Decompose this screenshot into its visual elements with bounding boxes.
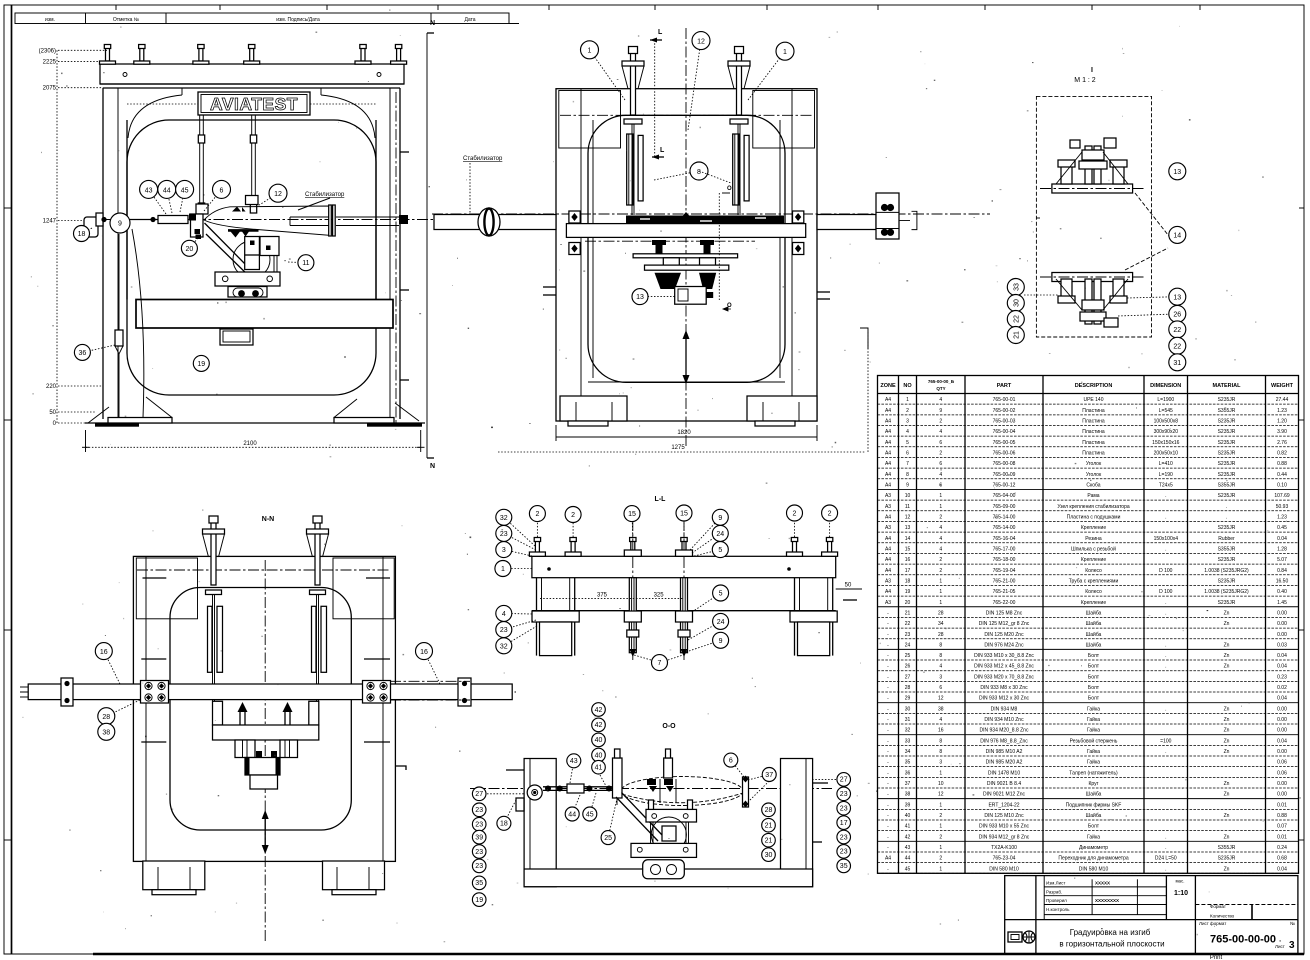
svg-text:31: 31 <box>1173 360 1181 367</box>
svg-text:DIN 580 M10: DIN 580 M10 <box>989 866 1019 872</box>
svg-text:Zn: Zn <box>1224 706 1230 712</box>
svg-text:0.04: 0.04 <box>1277 696 1287 702</box>
svg-text:35: 35 <box>475 880 483 887</box>
svg-text:1: 1 <box>501 566 505 573</box>
svg-text:50: 50 <box>845 583 852 589</box>
right column block <box>781 759 813 887</box>
svg-text:765-00-00_Б: 765-00-00_Б <box>928 379 955 384</box>
svg-text:23: 23 <box>475 807 483 814</box>
svg-text:S355JR: S355JR <box>1218 546 1236 552</box>
svg-text:6: 6 <box>939 461 942 467</box>
svg-text:Скоба: Скоба <box>1086 482 1100 488</box>
turnbuckle <box>130 219 197 221</box>
svg-text:DIN 934 M12_gr 8 Znc: DIN 934 M12_gr 8 Znc <box>979 834 1030 840</box>
svg-text:№: № <box>1290 921 1295 926</box>
svg-text:2: 2 <box>939 568 942 574</box>
svg-text:2225: 2225 <box>43 59 57 65</box>
upper clamp assembly <box>1052 184 1133 193</box>
svg-text:Zn: Zn <box>1224 866 1230 872</box>
svg-text:Колесо: Колесо <box>1085 589 1102 595</box>
top bolts <box>535 541 539 553</box>
svg-text:19: 19 <box>197 361 205 368</box>
svg-text:15: 15 <box>680 511 688 518</box>
svg-text:0.84: 0.84 <box>1277 568 1287 574</box>
svg-text:5: 5 <box>718 547 722 554</box>
svg-text:A3: A3 <box>885 525 891 531</box>
svg-text:43: 43 <box>145 187 153 194</box>
svg-text:1: 1 <box>939 845 942 851</box>
svg-text:A4: A4 <box>885 557 891 563</box>
svg-text:Дата: Дата <box>464 17 475 23</box>
svg-text:30: 30 <box>765 852 773 859</box>
svg-text:19: 19 <box>475 897 483 904</box>
svg-text:45: 45 <box>905 866 911 872</box>
svg-text:8: 8 <box>939 653 942 659</box>
svg-text:765-21-05: 765-21-05 <box>993 589 1016 595</box>
svg-text:DIN 985 M10 A2: DIN 985 M10 A2 <box>986 749 1023 755</box>
svg-text:18: 18 <box>500 821 508 828</box>
svg-text:Пластина: Пластина <box>1082 440 1105 446</box>
svg-text:1: 1 <box>939 589 942 595</box>
svg-text:1275: 1275 <box>671 445 685 451</box>
svg-text:Шайба: Шайба <box>1086 609 1102 616</box>
svg-text:8: 8 <box>939 642 942 648</box>
svg-text:S235JR: S235JR <box>1218 856 1236 862</box>
svg-text:2075: 2075 <box>43 86 57 92</box>
svg-text:Гайка: Гайка <box>1087 748 1100 755</box>
svg-text:Узел крепления стабилизатора: Узел крепления стабилизатора <box>1057 504 1129 510</box>
svg-text:DIN 125 M12_gr 8 Znc: DIN 125 M12_gr 8 Znc <box>979 621 1030 627</box>
svg-text:Болт: Болт <box>1088 674 1100 680</box>
svg-text:18: 18 <box>78 231 86 238</box>
svg-text:Гайка: Гайка <box>1087 727 1100 734</box>
svg-text:765-21-00: 765-21-00 <box>993 578 1016 584</box>
svg-text:42: 42 <box>905 834 911 840</box>
svg-text:.: . <box>1165 664 1166 670</box>
svg-text:23: 23 <box>500 627 508 634</box>
svg-text:0.00: 0.00 <box>1277 706 1287 712</box>
svg-text:Резьбовой стержень: Резьбовой стержень <box>1070 737 1118 744</box>
svg-text:25: 25 <box>905 653 911 659</box>
svg-text:S235JR: S235JR <box>1218 440 1236 446</box>
svg-text:.: . <box>1226 504 1227 510</box>
svg-text:N: N <box>430 463 435 470</box>
svg-text:765-00-12: 765-00-12 <box>993 482 1016 488</box>
svg-text:0.40: 0.40 <box>1277 589 1287 595</box>
main beam <box>532 556 836 577</box>
svg-text:23: 23 <box>475 822 483 829</box>
svg-text:Zn: Zn <box>1224 738 1230 744</box>
svg-text:I: I <box>1091 67 1093 74</box>
svg-text:20: 20 <box>186 246 194 253</box>
svg-text:A4: A4 <box>885 589 891 595</box>
svg-text:34: 34 <box>905 749 911 755</box>
svg-text:A4: A4 <box>885 461 891 467</box>
svg-text:0.06: 0.06 <box>1277 770 1287 776</box>
svg-text:26: 26 <box>905 664 911 670</box>
svg-text:765-00-08: 765-00-08 <box>993 461 1016 467</box>
svg-text:1: 1 <box>939 770 942 776</box>
svg-text:Пластина с подушками: Пластина с подушками <box>1067 514 1121 520</box>
svg-text:34: 34 <box>938 621 944 627</box>
svg-text:Гайка: Гайка <box>1087 705 1100 712</box>
stabilizer airfoil <box>204 206 330 235</box>
svg-text:DIN 933 M20 x 70_8.8 Znc: DIN 933 M20 x 70_8.8 Znc <box>974 674 1034 680</box>
svg-text:0.01: 0.01 <box>1277 802 1287 808</box>
svg-text:765-09-00: 765-09-00 <box>993 504 1016 510</box>
svg-text:4: 4 <box>939 536 942 542</box>
svg-text:150x100x4: 150x100x4 <box>1154 536 1179 542</box>
svg-text:765-19-04: 765-19-04 <box>993 568 1016 574</box>
svg-text:Шайба: Шайба <box>1086 812 1102 819</box>
svg-text:S235JR: S235JR <box>1218 525 1236 531</box>
screw rods <box>631 53 636 115</box>
svg-text:33: 33 <box>1014 283 1021 291</box>
svg-text:L-L: L-L <box>655 496 667 503</box>
svg-text:39: 39 <box>905 802 911 808</box>
svg-text:1: 1 <box>939 866 942 872</box>
svg-text:.: . <box>1165 845 1166 851</box>
svg-text:7: 7 <box>906 461 909 467</box>
svg-text:30: 30 <box>905 706 911 712</box>
svg-text:Болт: Болт <box>1088 696 1100 702</box>
svg-text:0.00: 0.00 <box>1277 781 1287 787</box>
svg-text:PART: PART <box>997 383 1012 389</box>
svg-text:2: 2 <box>793 511 797 518</box>
svg-text:DIN 9021 B 8.4: DIN 9021 B 8.4 <box>987 781 1021 787</box>
svg-text:Zn: Zn <box>1224 781 1230 787</box>
svg-text:43: 43 <box>905 845 911 851</box>
svg-text:Разраб.: Разраб. <box>1046 890 1062 895</box>
view: front elevation of test frame <box>39 20 435 470</box>
svg-text:28: 28 <box>905 685 911 691</box>
svg-text:A4: A4 <box>885 397 891 403</box>
svg-text:24: 24 <box>717 619 725 626</box>
svg-text:DIN 933 M10 x 30_8.8 Znc: DIN 933 M10 x 30_8.8 Znc <box>974 653 1034 659</box>
svg-text:DIN 934 M20_8.8 Znc: DIN 934 M20_8.8 Znc <box>980 728 1029 734</box>
svg-text:3.90: 3.90 <box>1277 429 1287 435</box>
shaft beam <box>28 684 512 700</box>
svg-text:0.68: 0.68 <box>1277 856 1287 862</box>
svg-text:Гайка: Гайка <box>1087 759 1100 766</box>
svg-text:Шайба: Шайба <box>1086 631 1102 638</box>
svg-text:17: 17 <box>840 820 848 827</box>
svg-text:DIN 976 M24 Znc: DIN 976 M24 Znc <box>984 642 1024 648</box>
svg-text:16: 16 <box>905 557 911 563</box>
svg-text:2: 2 <box>939 813 942 819</box>
svg-text:1247: 1247 <box>43 219 57 225</box>
svg-text:.: . <box>1165 600 1166 606</box>
svg-text:220: 220 <box>46 384 57 390</box>
svg-text:43: 43 <box>570 758 578 765</box>
counterweight <box>132 229 144 418</box>
svg-text:0.01: 0.01 <box>1277 834 1287 840</box>
svg-text:21: 21 <box>905 610 911 616</box>
svg-text:Пластина: Пластина <box>1082 450 1105 456</box>
svg-text:.: . <box>1165 866 1166 872</box>
svg-text:45: 45 <box>181 187 189 194</box>
base plates <box>85 422 425 424</box>
load arrow <box>685 338 687 376</box>
svg-text:1.45: 1.45 <box>1277 600 1287 606</box>
svg-text:0.04: 0.04 <box>1277 536 1287 542</box>
svg-text:S235JR: S235JR <box>1218 493 1236 499</box>
svg-text:DIN 125 M8 Znc: DIN 125 M8 Znc <box>986 610 1023 616</box>
svg-text:Динамометр: Динамометр <box>1079 845 1108 851</box>
svg-text:6: 6 <box>220 187 224 194</box>
svg-text:2: 2 <box>571 512 575 519</box>
svg-text:.: . <box>1165 610 1166 616</box>
mid rods <box>629 578 636 653</box>
svg-text:23: 23 <box>840 791 848 798</box>
svg-text:2: 2 <box>535 511 539 518</box>
svg-text:1820: 1820 <box>677 430 691 436</box>
svg-text:Zn: Zn <box>1224 834 1230 840</box>
svg-text:22: 22 <box>1173 344 1181 351</box>
svg-text:Проверил: Проверил <box>1046 898 1067 903</box>
svg-text:0.24: 0.24 <box>1277 845 1287 851</box>
svg-text:25: 25 <box>604 835 612 842</box>
svg-text:40: 40 <box>595 752 603 759</box>
svg-text:QTY: QTY <box>936 386 945 391</box>
svg-text:S235JR: S235JR <box>1218 450 1236 456</box>
svg-text:Болт: Болт <box>1088 664 1100 670</box>
svg-text:0.00: 0.00 <box>1277 792 1287 798</box>
shaft <box>434 215 556 230</box>
svg-text:A4: A4 <box>885 472 891 478</box>
svg-text:32: 32 <box>905 728 911 734</box>
svg-text:40: 40 <box>595 737 603 744</box>
svg-text:12: 12 <box>274 191 282 198</box>
svg-text:8: 8 <box>939 738 942 744</box>
svg-text:Круг: Круг <box>1089 781 1099 787</box>
svg-text:28: 28 <box>765 807 773 814</box>
svg-text:Количество: Количество <box>1210 914 1235 919</box>
svg-text:765-00-06: 765-00-06 <box>993 450 1016 456</box>
svg-text:0.00: 0.00 <box>1277 621 1287 627</box>
svg-text:DESCRIPTION: DESCRIPTION <box>1075 383 1113 389</box>
leading edge clamp <box>191 214 204 237</box>
svg-text:0.00: 0.00 <box>1277 728 1287 734</box>
svg-text:S355JR: S355JR <box>1218 482 1236 488</box>
svg-text:0.00: 0.00 <box>1277 632 1287 638</box>
svg-text:38: 38 <box>102 730 110 737</box>
svg-text:4: 4 <box>939 472 942 478</box>
svg-text:Пластина: Пластина <box>1082 408 1105 414</box>
svg-text:Zn: Zn <box>1224 717 1230 723</box>
svg-text:DIN 125 M10 Znc: DIN 125 M10 Znc <box>984 813 1024 819</box>
frame outline <box>556 89 817 421</box>
svg-text:WEIGHT: WEIGHT <box>1271 383 1294 389</box>
svg-text:50.93: 50.93 <box>1276 504 1289 510</box>
svg-text:765-16-04: 765-16-04 <box>993 536 1016 542</box>
svg-text:765-14-00: 765-14-00 <box>993 525 1016 531</box>
svg-text:28: 28 <box>938 632 944 638</box>
svg-text:19: 19 <box>905 589 911 595</box>
svg-text:Болт: Болт <box>1088 824 1100 830</box>
dims 1820 1275 <box>555 425 557 441</box>
svg-text:765-00-00-00: 765-00-00-00 <box>1210 934 1276 946</box>
svg-text:8: 8 <box>939 749 942 755</box>
svg-text:Подшипник фирмы SKF: Подшипник фирмы SKF <box>1066 802 1122 808</box>
svg-text:2: 2 <box>939 856 942 862</box>
svg-text:300x90x20: 300x90x20 <box>1154 429 1179 435</box>
svg-text:100x500x8: 100x500x8 <box>1154 419 1179 425</box>
svg-text:0.02: 0.02 <box>1277 685 1287 691</box>
svg-text:35: 35 <box>840 863 848 870</box>
svg-text:29: 29 <box>905 696 911 702</box>
svg-text:16: 16 <box>420 649 428 656</box>
svg-text:9: 9 <box>118 221 122 228</box>
svg-text:12: 12 <box>905 514 911 520</box>
svg-text:L=410: L=410 <box>1159 461 1173 467</box>
svg-text:4: 4 <box>939 397 942 403</box>
svg-text:1: 1 <box>939 600 942 606</box>
svg-text:O: O <box>727 186 732 192</box>
BOM parts table <box>878 376 1299 874</box>
svg-text:9: 9 <box>718 515 722 522</box>
svg-text:S235JR: S235JR <box>1218 419 1236 425</box>
svg-text:1:10: 1:10 <box>1174 890 1188 897</box>
svg-text:21: 21 <box>765 838 773 845</box>
bottom beam <box>524 869 813 887</box>
svg-text:S235JR: S235JR <box>1218 461 1236 467</box>
svg-text:DIN 933 M10 x 55 Znc: DIN 933 M10 x 55 Znc <box>979 824 1030 830</box>
svg-text:2: 2 <box>939 834 942 840</box>
svg-text:Формат: Формат <box>1210 904 1226 909</box>
svg-text:0.04: 0.04 <box>1277 866 1287 872</box>
svg-text:45: 45 <box>586 811 594 818</box>
svg-text:Zn: Zn <box>1224 610 1230 616</box>
svg-text:S235JR: S235JR <box>1218 429 1236 435</box>
svg-text:Гайка: Гайка <box>1087 716 1100 723</box>
section L marks <box>654 40 656 158</box>
svg-text:DIMENSION: DIMENSION <box>1150 383 1181 389</box>
svg-text:Пластина: Пластина <box>1082 429 1105 435</box>
svg-text:Труба с креплениями: Труба с креплениями <box>1069 578 1119 584</box>
svg-text:изм.: изм. <box>45 17 55 23</box>
svg-text:UPE 140: UPE 140 <box>1083 397 1103 403</box>
svg-text:1: 1 <box>939 578 942 584</box>
svg-text:3: 3 <box>502 547 506 554</box>
svg-text:23: 23 <box>840 834 848 841</box>
svg-text:Лист: Лист <box>1275 944 1285 949</box>
svg-text:0.45: 0.45 <box>1277 525 1287 531</box>
svg-text:1.23: 1.23 <box>1277 408 1287 414</box>
view: detail I M1:2 <box>1007 67 1186 371</box>
svg-text:21: 21 <box>765 823 773 830</box>
svg-text:1: 1 <box>939 824 942 830</box>
svg-text:Отметка №: Отметка № <box>113 17 139 23</box>
svg-text:1.20: 1.20 <box>1277 419 1287 425</box>
svg-text:5: 5 <box>719 591 723 598</box>
svg-text:765-00-04: 765-00-04 <box>993 429 1016 435</box>
svg-text:0.04: 0.04 <box>1277 664 1287 670</box>
svg-text:DIN 580 M10: DIN 580 M10 <box>1079 866 1109 872</box>
svg-text:20: 20 <box>905 600 911 606</box>
svg-text:13: 13 <box>1173 294 1181 301</box>
trailing edge clamp <box>743 777 749 807</box>
svg-text:1: 1 <box>939 493 942 499</box>
svg-text:A4: A4 <box>885 568 891 574</box>
svg-text:A4: A4 <box>885 546 891 552</box>
svg-text:9: 9 <box>906 482 909 488</box>
bottom thick border <box>93 953 1304 955</box>
svg-text:Пластина: Пластина <box>1082 419 1105 425</box>
svg-text:MATERIAL: MATERIAL <box>1212 383 1241 389</box>
svg-text:A4: A4 <box>885 419 891 425</box>
svg-text:S235JR: S235JR <box>1218 557 1236 563</box>
svg-text:11: 11 <box>905 504 910 510</box>
svg-text:21: 21 <box>1014 331 1021 339</box>
stabilizer section phantom <box>621 777 743 806</box>
svg-text:M 1 : 2: M 1 : 2 <box>1074 77 1096 84</box>
top beam <box>100 64 404 84</box>
svg-text:18: 18 <box>905 578 911 584</box>
centre clamp assembly <box>646 809 697 822</box>
view: section O-O <box>470 703 851 907</box>
svg-text:10: 10 <box>938 781 944 787</box>
svg-text:Крепление: Крепление <box>1081 557 1106 563</box>
dims <box>540 598 684 600</box>
svg-text:N: N <box>430 20 435 27</box>
svg-text:Градуировка на изгиб: Градуировка на изгиб <box>1070 928 1151 937</box>
svg-text:Rubber: Rubber <box>1218 536 1235 542</box>
svg-text:S235JR: S235JR <box>1218 472 1236 478</box>
svg-text:A4: A4 <box>885 536 891 542</box>
svg-text:Гайка: Гайка <box>1087 833 1100 840</box>
svg-text:в горизонтальной плоскости: в горизонтальной плоскости <box>1059 940 1164 949</box>
svg-text:DIN 933 M12 x 30 Znc: DIN 933 M12 x 30 Znc <box>979 696 1030 702</box>
svg-text:ХХХХХХХХ: ХХХХХХХХ <box>1095 898 1119 903</box>
svg-text:8: 8 <box>906 472 909 478</box>
svg-text:D 100: D 100 <box>1159 568 1173 574</box>
svg-text:Zn: Zn <box>1224 749 1230 755</box>
svg-text:0.03: 0.03 <box>1277 642 1287 648</box>
svg-text:4: 4 <box>939 429 942 435</box>
svg-text:0.88: 0.88 <box>1277 813 1287 819</box>
svg-text:2: 2 <box>939 419 942 425</box>
svg-text:Крепление: Крепление <box>1081 600 1106 606</box>
svg-text:0.44: 0.44 <box>1277 472 1287 478</box>
svg-text:12: 12 <box>697 38 705 45</box>
callouts <box>149 189 166 214</box>
svg-text:765-23-04: 765-23-04 <box>993 856 1016 862</box>
svg-text:4: 4 <box>939 525 942 531</box>
svg-text:44: 44 <box>568 811 576 818</box>
svg-text:17: 17 <box>905 568 911 574</box>
clamp assembly <box>585 240 755 242</box>
svg-text:DIN 976 M8_8.8_Znc: DIN 976 M8_8.8_Znc <box>980 738 1028 744</box>
bottom dim 2100 <box>86 446 421 448</box>
callout stacks <box>472 787 486 801</box>
svg-text:Шайба: Шайба <box>1086 791 1102 798</box>
svg-text:41: 41 <box>595 765 603 772</box>
svg-text:.: . <box>1165 653 1166 659</box>
view: section L-L <box>495 496 862 671</box>
svg-text:22: 22 <box>1173 327 1181 334</box>
svg-text:4: 4 <box>939 546 942 552</box>
svg-text:Изм.Лист: Изм.Лист <box>1046 881 1065 886</box>
svg-text:765-22-00: 765-22-00 <box>993 600 1016 606</box>
svg-text:A3: A3 <box>885 504 891 510</box>
svg-text:26: 26 <box>1173 312 1181 319</box>
svg-text:ERT_1204-22: ERT_1204-22 <box>988 802 1019 808</box>
svg-text:Шайба: Шайба <box>1086 620 1102 627</box>
svg-text:2100: 2100 <box>243 441 257 447</box>
svg-text:DIN 934 M8: DIN 934 M8 <box>991 706 1018 712</box>
revision table <box>15 13 519 24</box>
